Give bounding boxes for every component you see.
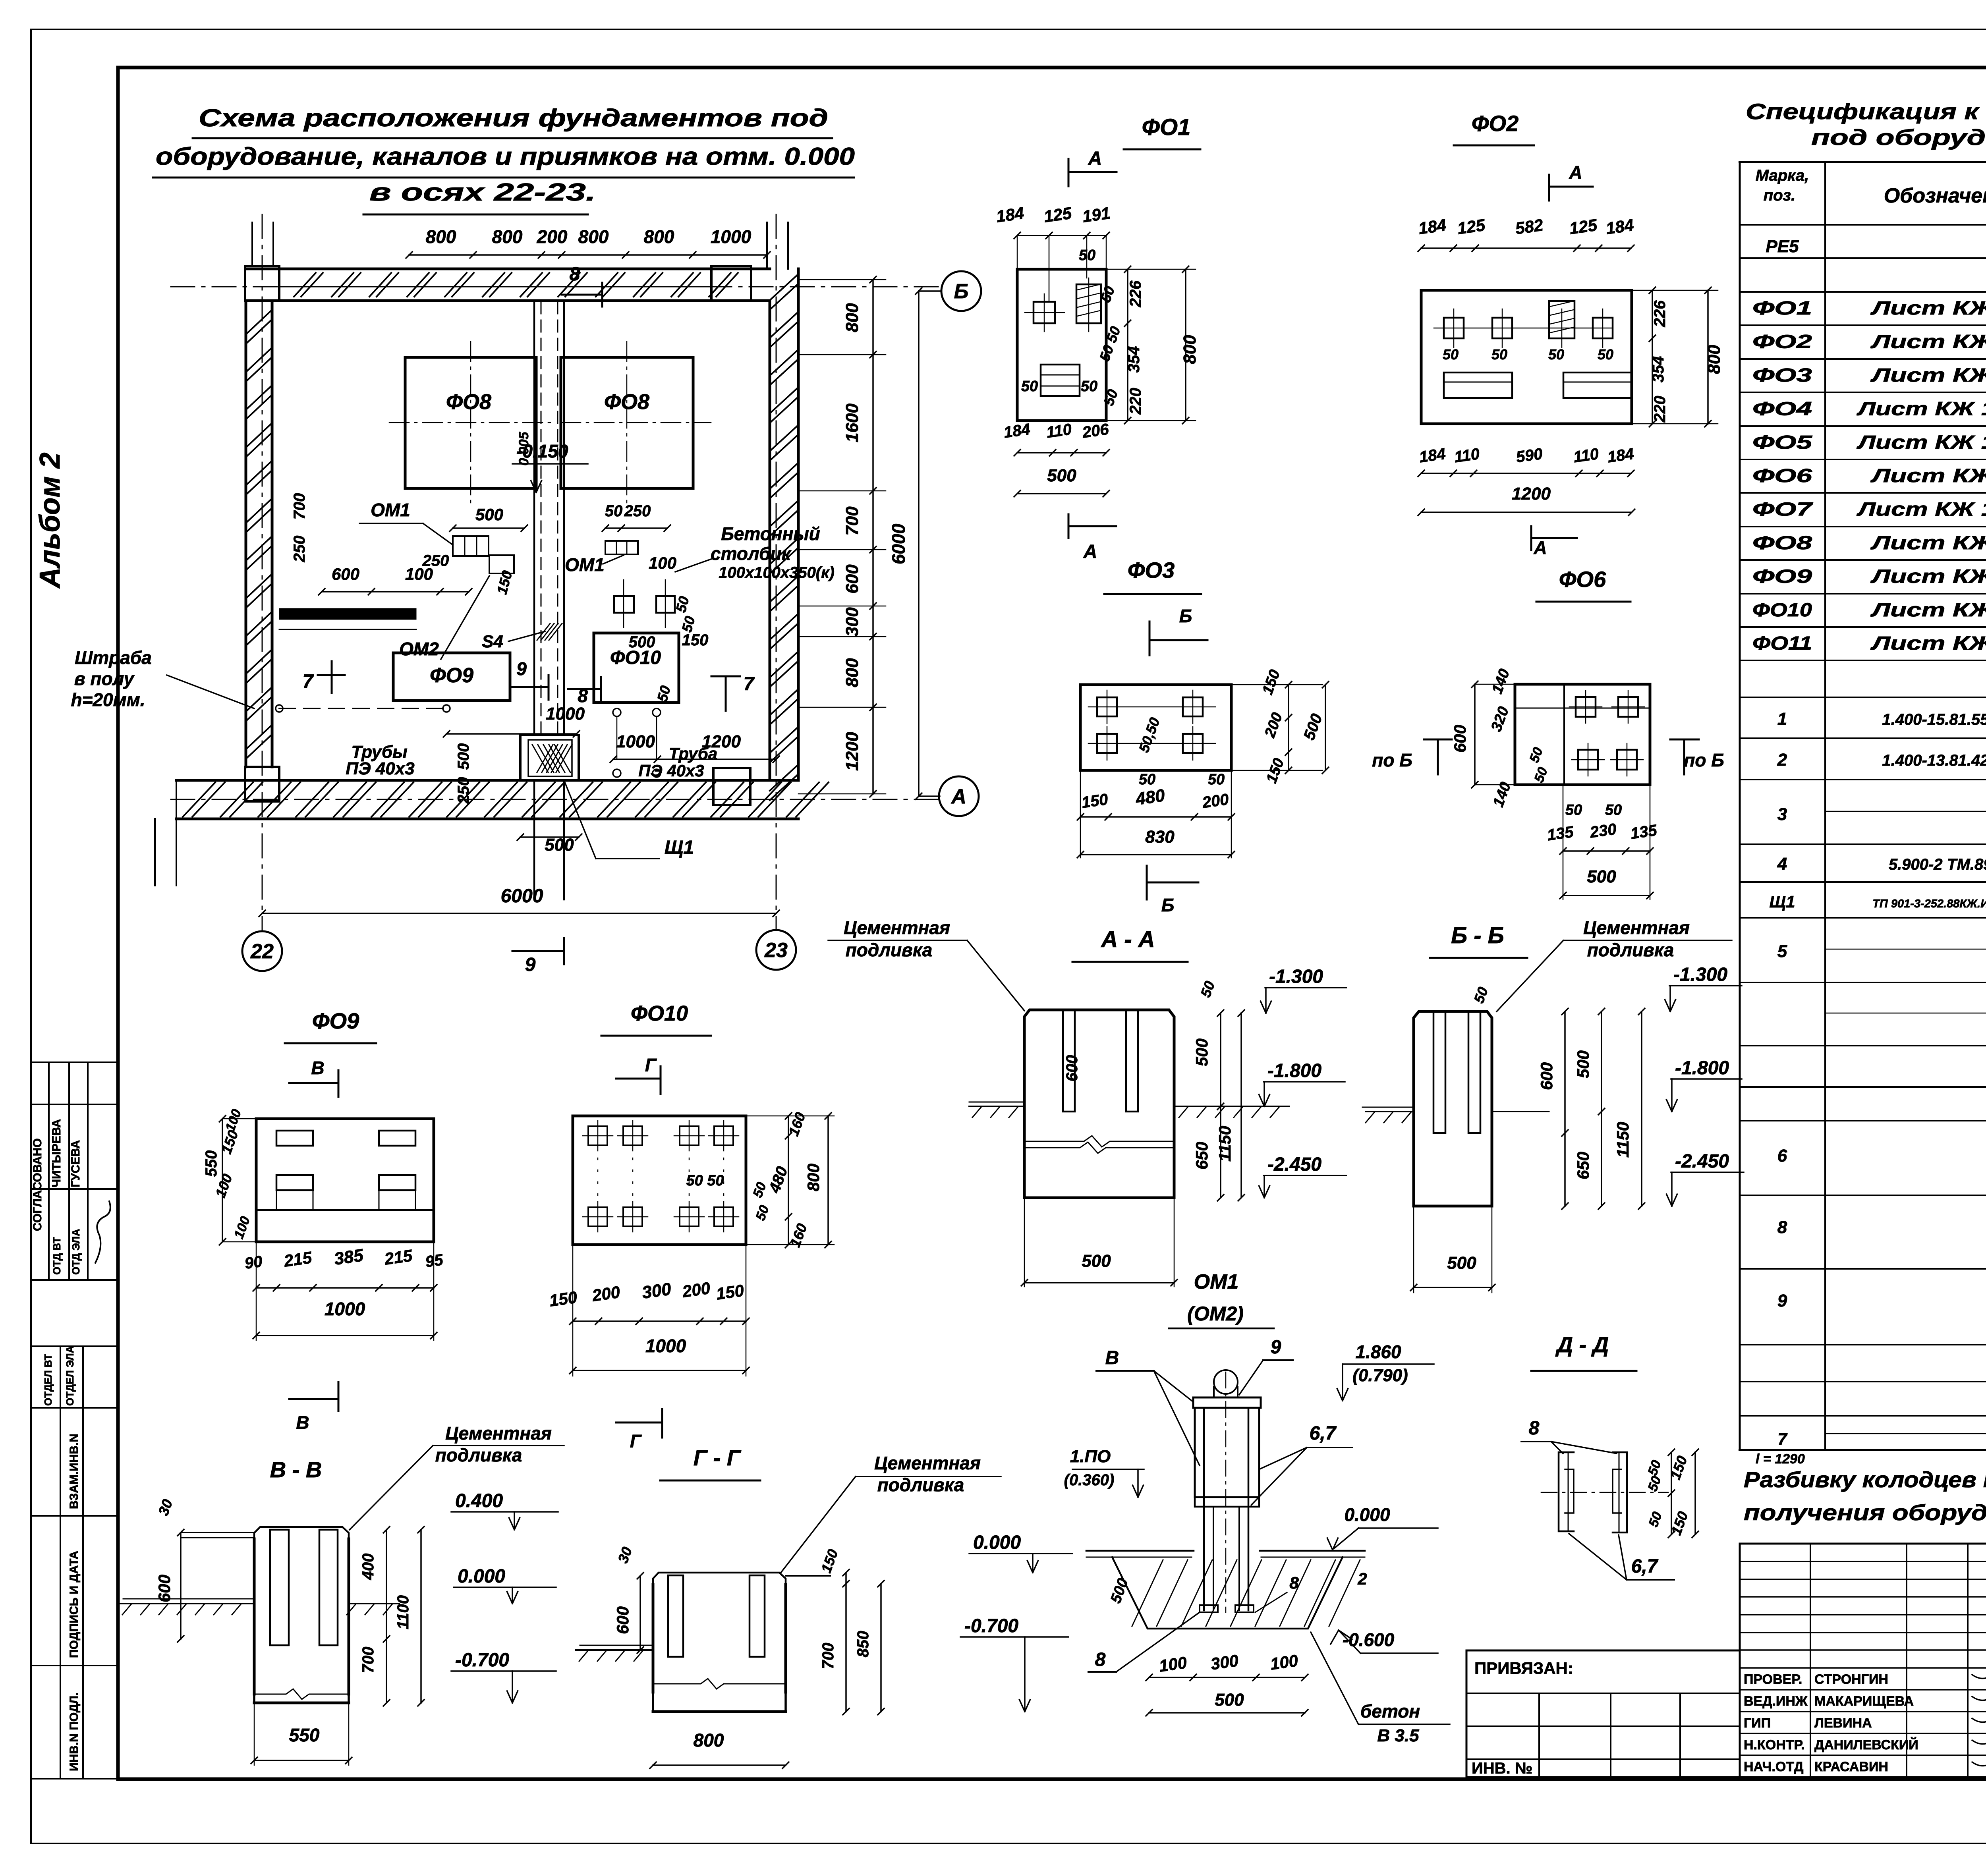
svg-text:Щ1: Щ1 [665,837,694,858]
svg-text:600: 600 [1537,1062,1556,1090]
svg-text:ФО9: ФО9 [430,664,473,687]
svg-text:50: 50 [1197,979,1218,1000]
svg-text:1.400-13.81.420-03: 1.400-13.81.420-03 [1882,752,1986,769]
svg-text:250: 250 [455,777,472,804]
svg-text:h=20мм.: h=20мм. [71,689,145,710]
svg-text:8: 8 [1777,1218,1787,1237]
svg-text:Г: Г [645,1055,657,1075]
svg-text:ВЗАМ.ИНВ.N: ВЗАМ.ИНВ.N [68,1434,81,1509]
svg-text:125: 125 [1568,215,1599,237]
svg-text:ФО8: ФО8 [446,390,491,414]
svg-text:0.000: 0.000 [973,1532,1021,1553]
svg-text:ТП 901-3-252.88КЖ.И12.0.0.0: ТП 901-3-252.88КЖ.И12.0.0.0 [1872,897,1986,910]
svg-text:А - А: А - А [1100,926,1155,952]
svg-text:500: 500 [1574,1050,1592,1078]
svg-text:Г - Г: Г - Г [694,1445,742,1470]
svg-text:Лист КЖ 14: Лист КЖ 14 [1870,566,1986,587]
svg-text:500: 500 [1587,867,1616,886]
svg-text:Лист КЖ 13,15: Лист КЖ 13,15 [1857,399,1986,420]
svg-text:НАЧ.ОТД: НАЧ.ОТД [1744,1759,1803,1774]
svg-text:50 50: 50 50 [686,1172,724,1189]
svg-text:110: 110 [1573,445,1600,466]
svg-text:50: 50 [654,684,674,703]
svg-text:0.005: 0.005 [516,431,531,465]
svg-text:582: 582 [1514,215,1544,237]
svg-text:184: 184 [1003,421,1031,442]
svg-text:800: 800 [1704,345,1724,374]
svg-text:50: 50 [1079,247,1095,264]
svg-text:ФО1: ФО1 [1142,114,1191,140]
svg-text:В: В [1105,1347,1119,1368]
svg-text:800: 800 [644,226,674,247]
svg-text:1000: 1000 [616,732,655,751]
svg-text:385: 385 [333,1245,365,1269]
svg-text:500: 500 [1047,466,1076,485]
svg-text:9: 9 [1777,1291,1787,1310]
svg-text:500: 500 [1300,712,1326,743]
svg-text:200: 200 [591,1282,621,1305]
svg-text:Лист КЖ 13,15: Лист КЖ 13,15 [1857,499,1986,520]
svg-text:ФО8: ФО8 [1752,533,1812,554]
svg-text:100: 100 [1269,1651,1299,1673]
svg-text:ВЕД.ИНЖ: ВЕД.ИНЖ [1744,1694,1808,1709]
svg-text:700: 700 [291,493,308,520]
svg-text:ЧИТЫРЕВА: ЧИТЫРЕВА [50,1119,63,1187]
svg-text:250: 250 [291,536,308,563]
svg-text:-2.450: -2.450 [1675,1151,1729,1172]
svg-text:Лист КЖ 14: Лист КЖ 14 [1870,633,1986,654]
svg-text:100: 100 [231,1214,253,1241]
svg-text:354: 354 [1125,346,1143,373]
svg-text:230: 230 [1588,820,1617,841]
svg-text:600: 600 [613,1606,632,1634]
svg-text:30: 30 [614,1545,635,1565]
svg-text:1.ПО: 1.ПО [1070,1447,1111,1466]
svg-text:100х100х350(к): 100х100х350(к) [719,564,835,581]
svg-text:500: 500 [1107,1576,1132,1606]
svg-text:50: 50 [1548,346,1564,363]
svg-text:Лист КЖ 14: Лист КЖ 14 [1870,465,1986,486]
svg-text:ИНВ.N ПОДЛ.: ИНВ.N ПОДЛ. [68,1693,81,1772]
svg-text:Марка,: Марка, [1756,167,1809,184]
svg-text:В - В: В - В [270,1457,322,1482]
svg-text:830: 830 [1145,827,1175,847]
svg-text:Б: Б [1179,606,1192,626]
svg-text:600: 600 [1063,1055,1081,1082]
svg-text:столбик: столбик [711,543,792,564]
svg-text:ФО3: ФО3 [1128,558,1175,583]
svg-text:500: 500 [1447,1253,1476,1273]
svg-text:Б - Б: Б - Б [1451,923,1504,948]
svg-text:50: 50 [1531,765,1551,785]
svg-text:800: 800 [426,226,456,247]
svg-text:Бетонный: Бетонный [721,523,820,544]
svg-text:650: 650 [1192,1142,1211,1170]
svg-text:ПЭ 40х3: ПЭ 40х3 [638,761,704,780]
svg-text:А: А [1088,148,1102,169]
svg-text:110: 110 [1045,421,1073,441]
svg-text:8: 8 [1289,1573,1299,1592]
svg-text:150: 150 [218,1128,241,1156]
svg-text:150: 150 [818,1547,841,1575]
svg-text:ОТДЕЛ ВТ: ОТДЕЛ ВТ [42,1354,54,1406]
svg-text:700: 700 [359,1647,377,1673]
svg-text:1000: 1000 [645,1336,686,1356]
svg-text:Лист КЖ 14: Лист КЖ 14 [1870,332,1986,353]
svg-text:-1.800: -1.800 [1675,1058,1729,1079]
svg-text:150: 150 [1259,668,1283,697]
svg-text:300: 300 [1209,1651,1240,1673]
svg-text:8: 8 [1095,1649,1106,1670]
svg-text:1000: 1000 [325,1299,365,1319]
svg-text:ОМ2: ОМ2 [399,639,439,659]
svg-text:30: 30 [155,1497,176,1518]
svg-text:1000: 1000 [546,704,585,724]
svg-text:ОТД ЭЛА: ОТД ЭЛА [70,1229,82,1275]
svg-text:50: 50 [605,502,623,520]
svg-text:500: 500 [455,743,472,770]
svg-text:800: 800 [492,226,523,247]
svg-text:А: А [1533,537,1547,558]
svg-text:184: 184 [1418,445,1447,466]
svg-text:500: 500 [1082,1251,1111,1271]
svg-text:5: 5 [1777,942,1787,961]
svg-text:(0.360): (0.360) [1064,1471,1115,1489]
svg-text:ФО7: ФО7 [1752,499,1813,520]
svg-text:6,7: 6,7 [1631,1556,1659,1577]
svg-text:0.000: 0.000 [458,1566,505,1587]
svg-text:ГИП: ГИП [1744,1716,1771,1731]
svg-text:400: 400 [359,1554,377,1581]
svg-text:ПОДПИСЬ И ДАТА: ПОДПИСЬ И ДАТА [68,1551,81,1658]
svg-text:50: 50 [1645,1474,1664,1494]
svg-text:В 3.5: В 3.5 [1377,1726,1419,1745]
svg-text:220: 220 [1127,388,1144,415]
svg-text:150: 150 [1080,791,1109,812]
svg-text:ОМ1: ОМ1 [1194,1270,1239,1293]
svg-text:700: 700 [819,1643,837,1669]
svg-text:А: А [1083,541,1097,562]
svg-text:-2.450: -2.450 [1267,1154,1321,1175]
svg-text:600: 600 [842,564,862,594]
svg-text:320: 320 [1488,704,1512,734]
svg-text:ФО9: ФО9 [1752,566,1812,587]
svg-text:Цементная: Цементная [1583,917,1690,938]
svg-text:50: 50 [1021,378,1038,395]
svg-text:МАКАРИЩЕВА: МАКАРИЩЕВА [1814,1694,1914,1709]
svg-text:Лист КЖ 14: Лист КЖ 14 [1870,365,1986,386]
svg-text:КРАСАВИН: КРАСАВИН [1814,1759,1888,1774]
svg-text:7: 7 [744,674,755,695]
svg-text:8: 8 [570,264,580,285]
svg-text:50: 50 [1598,346,1613,363]
svg-text:ФО5: ФО5 [1752,432,1813,453]
svg-text:500: 500 [1192,1038,1211,1066]
svg-text:800: 800 [578,226,609,247]
svg-text:ОМ1: ОМ1 [565,554,605,575]
svg-text:А: А [1569,162,1582,183]
svg-text:226: 226 [1651,300,1669,327]
svg-text:подливка: подливка [1587,940,1674,960]
svg-text:1.400-15.81.550-04: 1.400-15.81.550-04 [1882,711,1986,728]
svg-text:1600: 1600 [842,403,862,442]
svg-text:Схема расположения фундаментов: Схема расположения фундаментов под [199,104,828,132]
svg-text:ИНВ. №: ИНВ. № [1472,1760,1532,1777]
svg-text:200: 200 [537,226,568,247]
svg-text:184: 184 [1417,215,1447,237]
svg-text:100: 100 [405,565,433,583]
svg-text:9: 9 [1271,1337,1281,1358]
svg-text:1150: 1150 [1613,1122,1632,1158]
svg-text:ПРИВЯЗАН:: ПРИВЯЗАН: [1474,1659,1573,1677]
svg-text:S4: S4 [482,632,503,651]
svg-text:Б: Б [1161,895,1175,915]
svg-text:184: 184 [1606,445,1635,466]
svg-text:50: 50 [1081,378,1097,395]
svg-text:по Б: по Б [1372,750,1412,770]
svg-text:800: 800 [804,1164,823,1191]
svg-text:200: 200 [1262,710,1286,740]
svg-text:В: В [311,1058,324,1078]
svg-text:Цементная: Цементная [844,917,950,938]
svg-text:50 50: 50 50 [1096,324,1124,363]
svg-text:бетон: бетон [1360,1701,1420,1722]
svg-text:226: 226 [1127,280,1144,307]
svg-text:800: 800 [842,303,862,332]
svg-text:Цементная: Цементная [445,1423,552,1444]
svg-text:50: 50 [1208,771,1225,788]
svg-text:3: 3 [1777,805,1787,824]
svg-text:50: 50 [750,1180,769,1200]
svg-text:ФО1: ФО1 [1752,298,1812,319]
svg-text:550: 550 [289,1725,320,1745]
svg-text:Лист КЖ 14: Лист КЖ 14 [1870,600,1986,621]
svg-text:50: 50 [1139,771,1155,788]
svg-text:Н.КОНТР.: Н.КОНТР. [1744,1737,1805,1752]
svg-text:95: 95 [424,1251,444,1271]
svg-text:ПЭ 40х3: ПЭ 40х3 [346,759,414,778]
svg-text:ФО10: ФО10 [1752,600,1812,621]
svg-text:6000: 6000 [888,523,909,564]
svg-text:ОМ1: ОМ1 [371,500,410,520]
svg-text:А: А [950,785,966,808]
svg-text:0.000: 0.000 [1344,1504,1390,1525]
svg-text:ФО6: ФО6 [1559,567,1606,592]
svg-text:8: 8 [1529,1418,1540,1439]
svg-text:300: 300 [842,607,862,637]
svg-text:Цементная: Цементная [874,1453,981,1473]
svg-text:Д - Д: Д - Д [1555,1332,1609,1357]
svg-text:-1.800: -1.800 [1267,1060,1321,1081]
svg-text:Обозначение: Обозначение [1884,184,1986,207]
svg-text:6,7: 6,7 [1310,1423,1337,1444]
svg-text:7: 7 [1777,1430,1787,1448]
svg-text:500: 500 [629,633,655,651]
svg-text:1100: 1100 [394,1595,412,1629]
svg-text:125: 125 [1043,203,1073,226]
svg-text:ПРОВЕР.: ПРОВЕР. [1744,1672,1802,1687]
svg-text:50: 50 [1605,802,1622,818]
svg-text:1000: 1000 [711,226,752,247]
svg-text:500: 500 [1215,1690,1244,1710]
svg-text:206: 206 [1081,421,1110,442]
svg-text:В: В [296,1412,309,1433]
svg-text:ФО2: ФО2 [1472,111,1518,136]
svg-text:ФО10: ФО10 [631,1002,688,1025]
svg-text:0.400: 0.400 [455,1490,503,1511]
svg-text:(ОМ2): (ОМ2) [1187,1303,1244,1325]
svg-text:ФО3: ФО3 [1752,365,1812,386]
svg-text:5.900-2 ТМ.89.07: 5.900-2 ТМ.89.07 [1889,856,1986,873]
svg-text:100: 100 [222,1107,244,1133]
svg-text:подливка: подливка [877,1475,964,1495]
svg-text:подливка: подливка [846,940,933,960]
svg-text:Альбом 2: Альбом 2 [34,452,66,589]
svg-text:23: 23 [764,939,788,962]
svg-text:110: 110 [1453,445,1481,466]
svg-text:Лист КЖ 13,15: Лист КЖ 13,15 [1857,432,1986,453]
svg-text:9: 9 [525,954,536,975]
svg-text:7: 7 [303,671,314,692]
svg-text:90: 90 [243,1253,263,1272]
svg-text:ОТДЕЛ ЭЛА: ОТДЕЛ ЭЛА [64,1345,76,1406]
svg-text:50: 50 [1565,802,1582,818]
svg-text:590: 590 [1515,445,1544,466]
svg-text:500: 500 [545,835,574,855]
svg-text:354: 354 [1650,356,1667,383]
svg-text:ФО6: ФО6 [1752,465,1812,486]
svg-text:800: 800 [842,658,862,687]
svg-text:ОТД ВТ: ОТД ВТ [51,1237,63,1275]
svg-text:150: 150 [1667,1453,1690,1481]
svg-text:оборудование, каналов и приямк: оборудование, каналов и приямков на отм.… [156,143,855,170]
svg-text:РЕ5: РЕ5 [1766,237,1799,256]
svg-text:1200: 1200 [842,732,862,771]
svg-text:6000: 6000 [501,886,543,907]
svg-text:-0.700: -0.700 [964,1615,1018,1637]
svg-text:Штраба: Штраба [75,647,152,668]
svg-text:Лист КЖ 14: Лист КЖ 14 [1870,533,1986,554]
svg-text:50: 50 [1646,1510,1665,1529]
svg-text:480: 480 [765,1164,791,1196]
svg-text:500: 500 [475,505,503,524]
svg-text:50: 50 [1470,985,1491,1006]
svg-text:700: 700 [842,506,862,536]
svg-text:ФО4: ФО4 [1752,399,1812,420]
svg-text:100: 100 [1158,1653,1188,1675]
svg-text:480: 480 [1134,786,1166,809]
svg-text:(0.790): (0.790) [1352,1366,1408,1385]
svg-text:200: 200 [681,1278,711,1301]
svg-text:под оборудование каналов и пр: под оборудование каналов и приямков. [1811,125,1986,150]
svg-text:215: 215 [383,1246,414,1268]
svg-text:135: 135 [1629,822,1658,843]
svg-text:22: 22 [250,940,274,963]
svg-text:-1.300: -1.300 [1269,966,1323,987]
svg-text:Г: Г [630,1431,642,1451]
svg-text:1: 1 [1777,709,1787,729]
svg-text:100: 100 [649,554,676,572]
svg-text:поз.: поз. [1764,187,1795,204]
svg-text:по Б: по Б [1684,750,1724,770]
svg-text:2: 2 [1357,1569,1367,1588]
svg-text:ГУСЕВА: ГУСЕВА [69,1140,82,1187]
svg-text:получения оборудования.: получения оборудования. [1744,1500,1986,1525]
svg-text:-0.600: -0.600 [1343,1629,1395,1650]
svg-text:191: 191 [1081,203,1111,226]
svg-text:СОГЛАСОВАНО: СОГЛАСОВАНО [31,1138,44,1231]
svg-text:ДАНИЛЕВСКИЙ: ДАНИЛЕВСКИЙ [1814,1737,1918,1752]
svg-text:ФО11: ФО11 [1752,633,1812,654]
svg-text:135: 135 [1546,823,1575,844]
svg-text:ЛЕВИНА: ЛЕВИНА [1814,1716,1872,1731]
svg-text:50,50: 50,50 [1136,715,1163,755]
svg-text:Труба: Труба [669,744,717,763]
svg-text:50: 50 [1526,745,1546,765]
svg-text:550: 550 [203,1150,220,1177]
svg-text:184: 184 [995,203,1025,226]
svg-text:250: 250 [624,502,651,520]
svg-text:ФО9: ФО9 [312,1008,359,1033]
svg-text:подливка: подливка [435,1445,522,1465]
svg-text:850: 850 [854,1631,872,1658]
svg-text:300: 300 [641,1279,672,1303]
svg-text:600: 600 [332,565,359,583]
svg-text:800: 800 [1180,335,1200,364]
svg-text:200: 200 [1201,791,1230,812]
svg-text:600: 600 [155,1575,174,1602]
svg-text:160: 160 [785,1110,809,1138]
svg-text:160: 160 [787,1221,810,1249]
svg-text:Лист КЖ 14: Лист КЖ 14 [1870,298,1986,319]
svg-text:220: 220 [1651,396,1669,423]
svg-text:125: 125 [1456,215,1487,237]
svg-text:Разбивку колодцев под болты пр: Разбивку колодцев под болты производить … [1744,1467,1986,1492]
svg-text:50: 50 [1100,387,1121,408]
svg-text:184: 184 [1605,215,1635,237]
svg-text:2: 2 [1777,750,1787,770]
svg-text:в осях 22-23.: в осях 22-23. [369,179,596,206]
svg-text:l = 1290: l = 1290 [1756,1451,1805,1467]
svg-text:4: 4 [1777,854,1787,874]
svg-text:Щ1: Щ1 [1770,892,1795,911]
svg-text:1.860: 1.860 [1355,1341,1401,1362]
svg-text:ФО2: ФО2 [1752,332,1812,353]
svg-text:1200: 1200 [1512,484,1551,504]
svg-text:600: 600 [1451,725,1469,753]
svg-text:50: 50 [1491,346,1507,363]
svg-text:150: 150 [715,1281,745,1303]
svg-text:150: 150 [548,1287,578,1310]
svg-text:1150: 1150 [1215,1126,1234,1162]
svg-text:50: 50 [753,1203,772,1223]
svg-text:50: 50 [1443,346,1459,363]
svg-text:650: 650 [1574,1152,1592,1179]
svg-text:6: 6 [1777,1146,1787,1166]
svg-text:Спецификация к схемам располож: Спецификация к схемам расположения фунда… [1746,99,1986,124]
svg-text:СТРОНГИН: СТРОНГИН [1814,1672,1888,1687]
svg-text:Б: Б [954,280,969,303]
svg-text:50: 50 [1645,1458,1664,1478]
svg-text:-0.700: -0.700 [455,1650,509,1671]
svg-text:9: 9 [516,658,527,679]
svg-text:150: 150 [682,631,709,649]
svg-text:215: 215 [282,1248,313,1270]
svg-text:-1.300: -1.300 [1673,964,1727,985]
svg-text:800: 800 [694,1730,724,1751]
svg-text:в полу: в полу [74,668,135,689]
svg-text:140: 140 [1489,667,1513,696]
